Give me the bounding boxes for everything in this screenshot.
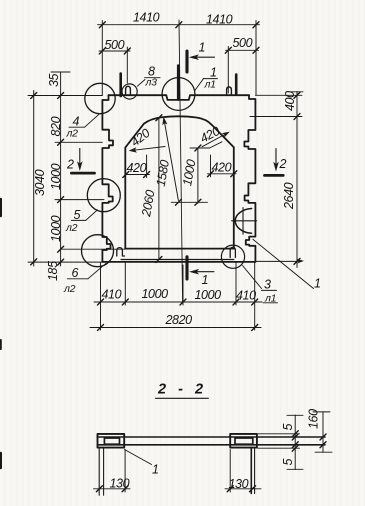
svg-text:2: 2 — [66, 158, 74, 172]
leader for node 4 label — [85, 114, 100, 127]
svg-text:1410: 1410 — [206, 13, 233, 27]
radius leader 1580 — [162, 117, 178, 201]
frame top-right corner step — [249, 95, 255, 102]
dimension 1000 centre vertical — [171, 142, 222, 206]
svg-text:л2: л2 — [66, 128, 79, 140]
detail circle node 1 — [162, 78, 195, 111]
svg-text:500: 500 — [233, 36, 253, 50]
embedded plate right outer — [230, 434, 257, 448]
svg-text:410: 410 — [102, 288, 122, 302]
section 2-2 title underline — [156, 397, 209, 399]
lifting loop item 8 — [126, 86, 131, 95]
svg-text:2: 2 — [279, 157, 287, 171]
svg-text:820: 820 — [49, 116, 63, 136]
detail circle node 4 — [85, 83, 115, 113]
embedded rod right on top edge — [235, 75, 238, 95]
detail circle for item 8 — [122, 84, 137, 99]
svg-text:л1: л1 — [264, 293, 276, 305]
leader for pos 1 in section — [125, 450, 152, 465]
axis centerline of frame — [179, 20, 183, 303]
svg-text:5: 5 — [281, 459, 295, 466]
svg-text:1000: 1000 — [195, 288, 222, 302]
tie beam bottom edge — [121, 259, 234, 261]
svg-text:5: 5 — [74, 208, 81, 222]
leader for node 1 label — [195, 79, 204, 91]
chamfer 420 slanted arrow left — [129, 147, 165, 153]
svg-text:2640: 2640 — [282, 182, 296, 210]
lifting loop on tie beam left — [117, 248, 125, 256]
svg-text:4: 4 — [73, 115, 80, 129]
svg-text:5: 5 — [281, 424, 295, 431]
frame top edge with joint recess — [109, 95, 250, 100]
svg-text:л3: л3 — [145, 77, 158, 89]
detail circle node 5 — [87, 179, 120, 212]
svg-text:6: 6 — [72, 266, 79, 280]
right leg lines of section — [250, 448, 252, 494]
svg-text:130: 130 — [229, 477, 249, 491]
embedded plate right inner — [235, 438, 253, 444]
section dim line 160 — [313, 412, 332, 453]
embedded rod left on top edge — [119, 74, 122, 97]
lifting loop at tie beam right end — [230, 247, 235, 257]
left inner dimension line 35/820/1000/1000/185 — [28, 72, 125, 266]
bottom dimension line 410/1000/1000/410 — [94, 263, 262, 331]
svg-text:500: 500 — [105, 38, 125, 52]
svg-text:1000: 1000 — [142, 287, 169, 301]
left leg lines of section — [98, 448, 100, 496]
chamfer 420 slanted arrow right — [202, 132, 230, 147]
embedded plate left outer — [98, 434, 125, 448]
right dimension line 400/2640 — [250, 92, 303, 268]
overall dimension line 2820 — [90, 325, 261, 331]
section marker 1 bottom — [187, 257, 214, 279]
svg-text:420: 420 — [212, 161, 232, 175]
chamfer dimension 420 right horizontal — [208, 155, 237, 177]
svg-text:3: 3 — [264, 278, 271, 292]
frame top-left corner step — [102, 95, 108, 100]
dimension 130 left — [94, 450, 131, 493]
svg-text:1: 1 — [199, 41, 206, 55]
svg-text:185: 185 — [46, 261, 60, 281]
svg-text:л2: л2 — [65, 222, 78, 234]
leader for node 8 label — [137, 80, 145, 87]
embedded plate left inner — [104, 438, 119, 444]
chamfer dimension 420 left horizontal — [123, 155, 150, 178]
bottom edge extension with arrow to right dim line — [255, 259, 304, 264]
section 2-2 slab bottom edge — [98, 444, 326, 446]
svg-text:1: 1 — [314, 277, 321, 291]
svg-text:410: 410 — [236, 289, 256, 303]
drain hole with cross on right wall — [235, 209, 251, 234]
section marker 1 top — [187, 51, 215, 72]
left outer dimension line 3040 — [28, 91, 102, 267]
leader for node 3 label — [243, 266, 262, 289]
svg-text:3040: 3040 — [33, 169, 47, 196]
svg-text:1: 1 — [202, 273, 209, 287]
opening height dimension 2060 — [156, 115, 162, 263]
section 2-2 slab top edge — [98, 436, 326, 438]
section marker 2 left — [71, 148, 94, 173]
svg-text:130: 130 — [110, 477, 130, 491]
svg-text:420: 420 — [127, 161, 147, 175]
svg-text:35: 35 — [47, 73, 61, 87]
section dim line 5/5 — [258, 415, 303, 470]
lifting loop right on top edge — [227, 87, 232, 95]
arched opening outline — [125, 116, 234, 248]
embedded rod at frame centre — [177, 66, 180, 100]
svg-text:1: 1 — [210, 66, 217, 80]
svg-text:400: 400 — [283, 91, 297, 111]
dimension 500 top left — [99, 47, 130, 83]
svg-text:160: 160 — [307, 409, 321, 429]
leader for node 5 label — [86, 210, 98, 221]
leader for panel mark 1 — [253, 239, 314, 288]
dimension 500 top right — [225, 47, 259, 94]
svg-text:1: 1 — [152, 463, 159, 477]
detail circle node 3 — [221, 245, 244, 268]
dimension 130 right — [225, 450, 261, 493]
tie beam top edge — [125, 248, 234, 250]
section marker 2 right — [265, 149, 284, 176]
left wall outer edge with keyways — [102, 100, 113, 262]
svg-text:1000: 1000 — [49, 215, 63, 242]
detail circle node 6 — [82, 235, 114, 267]
svg-text:л2: л2 — [63, 283, 76, 295]
svg-text:1000: 1000 — [49, 163, 63, 190]
top dimension line 1410+1410 — [98, 21, 260, 96]
svg-text:2820: 2820 — [165, 313, 193, 327]
frame bottom edge — [102, 261, 255, 263]
svg-text:л1: л1 — [204, 79, 216, 91]
scan edge artifacts — [0, 199, 2, 216]
right wall outer edge with keyways — [244, 103, 255, 262]
svg-text:2 - 2: 2 - 2 — [157, 382, 207, 398]
leader for node 6 label — [88, 263, 106, 279]
svg-text:1410: 1410 — [133, 11, 160, 25]
